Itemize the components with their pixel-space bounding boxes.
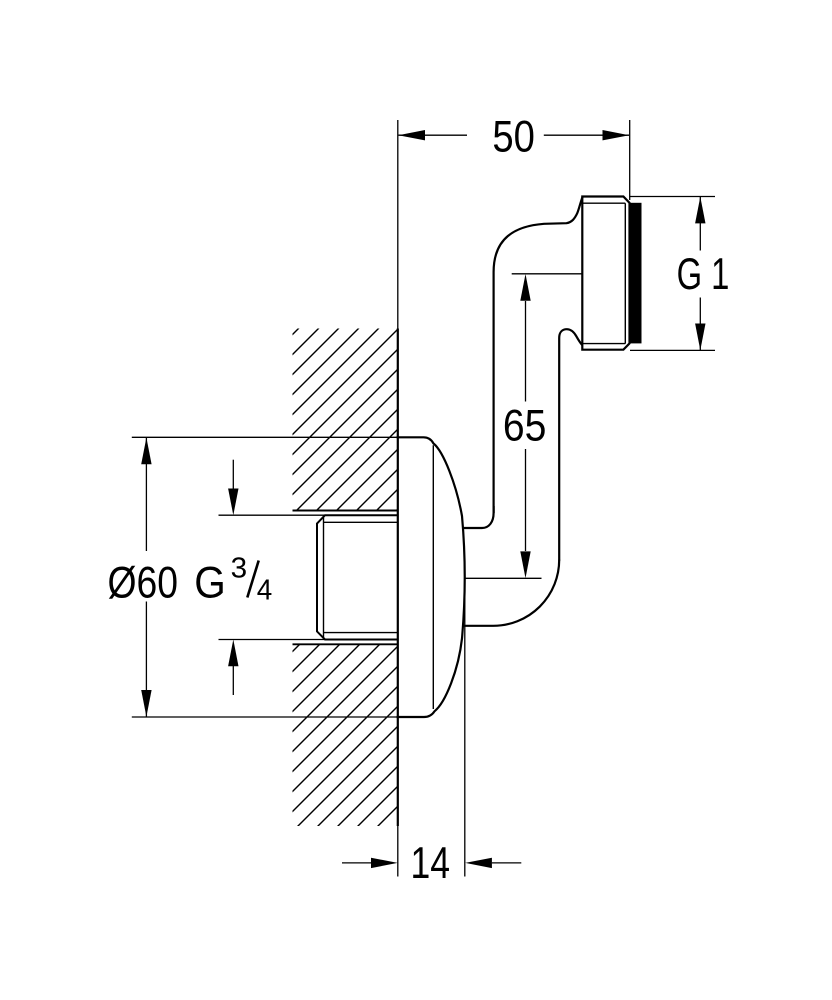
svg-text:4: 4 [257,574,273,606]
wall hatch lower [94,620,584,850]
dim G1 arrow bottom [695,324,705,351]
wall face line [397,120,399,877]
dim 14 line right [492,862,522,864]
dim dia60 arrow bottom [141,690,151,717]
dim 65 extension top [512,273,583,275]
wall hatch upper [87,300,607,540]
dim 50 arrow right [603,130,630,140]
dim dia60 arrow top [141,438,151,465]
flange dia60 extension bottom [132,716,397,718]
pipe stub top edge [464,506,494,528]
flange dia60 extension top [132,436,397,438]
dim 50 arrow left [398,130,425,140]
thread dia arrow bottom [232,666,234,695]
dim G1 extension bottom [630,349,715,351]
thread G3/4 male outline [317,515,398,639]
dim 14 arrow left [371,858,398,868]
dim 50 line right [544,134,629,136]
thread G3/4 extension line top [219,514,398,516]
flange rim face line [432,445,434,709]
svg-text:50: 50 [492,112,535,161]
dim 14 extension right [464,578,466,876]
thread root line top [324,521,398,523]
dim G1 line bottom [699,298,701,351]
svg-text:14: 14 [411,839,451,888]
wall opening lower edge [293,643,398,645]
pipe left edge and upper elbow outer [494,197,583,513]
pipe stub bottom edge and lower elbow [463,560,559,626]
dim 65 arrow top [520,274,530,301]
dim G1 arrow top [695,197,705,224]
dim 65 arrow bottom [520,551,530,578]
pipe right edge and bead at nut [559,329,582,560]
svg-text:Ø60: Ø60 [108,558,179,607]
thread G3/4 extension line bottom [219,639,398,641]
svg-text:3: 3 [231,553,248,585]
union nut G1 outline [582,197,629,350]
dim 14 line left [342,862,372,864]
dim 65 line upper [525,301,527,402]
nut face line vertical [624,203,626,343]
dim G1 extension top [630,196,715,198]
dim G1 line top [699,197,701,251]
dim 65 extension bottom [464,577,542,579]
thread chamfer line [323,516,325,639]
thread dia arrow top [232,460,234,490]
dim 65 line lower [525,449,527,551]
dim 50 extension right [629,120,631,200]
svg-text:G 1: G 1 [677,250,730,299]
dim 50 line left [399,134,468,136]
dim 14 arrow right [465,858,492,868]
nut face line top [582,202,625,204]
svg-text:G: G [194,558,226,607]
wall opening upper edge [293,510,398,512]
nut face line bottom [582,343,625,345]
flange escutcheon outline [397,437,465,717]
thread label slash [247,561,258,598]
dim dia60 line lower [145,602,147,717]
dim dia60 line upper [145,438,147,551]
nut seal washer black [630,203,642,344]
svg-text:65: 65 [503,401,547,450]
thread root line bottom [324,632,398,634]
